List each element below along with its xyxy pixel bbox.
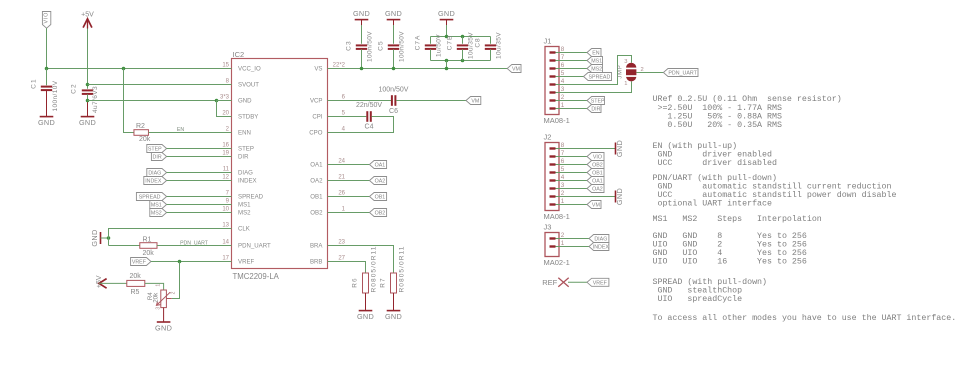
svg-text:VM: VM xyxy=(592,203,600,209)
flag VM on VS xyxy=(507,65,521,73)
ground at R6 xyxy=(359,310,373,312)
svg-text:INDEX: INDEX xyxy=(145,179,162,185)
junction bottom bus VS tap xyxy=(445,59,449,63)
svg-text:REF: REF xyxy=(542,278,557,287)
wire INDEX xyxy=(167,180,232,182)
wire VREF to trimmer tap xyxy=(172,262,180,299)
pin 3 of J1 xyxy=(550,91,556,93)
wire DIAG xyxy=(167,172,232,174)
wire MS1 xyxy=(167,204,232,206)
svg-text:GND: GND xyxy=(385,9,402,18)
wire J2.2 to GND xyxy=(567,196,616,198)
resistor R2 20k xyxy=(134,130,149,136)
svg-text:R1: R1 xyxy=(143,237,152,244)
svg-text:VREF: VREF xyxy=(238,259,255,266)
svg-text:R7: R7 xyxy=(380,277,387,288)
svg-text:To access all other modes you: To access all other modes you have to us… xyxy=(653,313,957,323)
svg-text:23: 23 xyxy=(338,240,345,246)
resistor R1 20k xyxy=(140,243,157,249)
svg-text:20k: 20k xyxy=(143,250,155,257)
svg-text:C8: C8 xyxy=(475,37,482,47)
wire R2 to ENN pin 2 xyxy=(149,132,232,134)
pin 21 OA2 (right) xyxy=(328,180,344,182)
svg-text:C1: C1 xyxy=(31,78,38,89)
ground above C7 group xyxy=(440,19,454,21)
svg-text:2: 2 xyxy=(171,291,177,294)
svg-text:PDN/UART (with pull-down): PDN/UART (with pull-down) xyxy=(653,173,777,183)
pin 8 SVOUT (left) xyxy=(216,84,232,86)
svg-text:MS2: MS2 xyxy=(238,210,251,217)
svg-text:OB2: OB2 xyxy=(310,210,323,217)
svg-text:UIO spreadCycle: UIO spreadCycle xyxy=(653,294,743,304)
svg-text:GND: GND xyxy=(79,118,96,127)
flag DIR xyxy=(151,153,166,161)
flag OA2 xyxy=(370,177,387,185)
svg-text:OA1: OA1 xyxy=(310,162,323,169)
flag INDEX xyxy=(144,177,167,185)
svg-text:MS2: MS2 xyxy=(151,211,162,217)
svg-text:CPI: CPI xyxy=(312,114,322,121)
svg-text:12: 12 xyxy=(222,175,229,181)
pin 6 of J1 xyxy=(550,67,556,69)
svg-text:MS1: MS1 xyxy=(238,202,251,209)
pin 6 VCP (right) xyxy=(328,100,344,102)
svg-text:13: 13 xyxy=(222,223,229,229)
svg-text:C7A: C7A xyxy=(415,35,422,51)
svg-text:OB1: OB1 xyxy=(310,194,323,201)
capacitor C1 100n/10V xyxy=(46,69,48,86)
svg-text:3: 3 xyxy=(155,307,161,310)
svg-text:DIR: DIR xyxy=(591,107,600,113)
pin 24 OA1 (right) xyxy=(328,164,344,166)
junction top bus C7B xyxy=(461,35,465,39)
svg-text:4: 4 xyxy=(561,78,565,85)
svg-text:GND stealthChop: GND stealthChop xyxy=(653,285,743,295)
flag VREF at REF xyxy=(587,278,609,286)
wire bottom bus to VS xyxy=(446,61,448,69)
net VCC_IO wire (pin 15) xyxy=(47,68,232,70)
op-amp / driver IC2 TMC2209-LA body xyxy=(232,59,328,269)
wire BRA pin 23 to R7 xyxy=(343,246,394,274)
connector J3 MA02-1 body xyxy=(545,233,559,257)
ground at C1 xyxy=(40,116,54,118)
svg-text:22n/50V: 22n/50V xyxy=(356,102,382,109)
wire +5V down to SVOUT net xyxy=(87,29,89,85)
svg-text:VS: VS xyxy=(314,66,322,73)
svg-text:0.50U 20% - 0.35A RMS: 0.50U 20% - 0.35A RMS xyxy=(653,121,782,130)
pin 7 of J1 xyxy=(550,59,556,61)
junction top bus GND tap xyxy=(445,35,449,39)
wire trimmer to GND xyxy=(163,308,165,322)
flag EN at J1.8 xyxy=(567,52,587,54)
junction bottom bus C7B xyxy=(461,59,465,63)
ground at C2 xyxy=(81,116,95,118)
svg-text:SPREAD (with pull-down): SPREAD (with pull-down) xyxy=(653,277,768,287)
flag STEP xyxy=(147,145,167,153)
svg-text:VREF: VREF xyxy=(593,280,608,286)
flag MS1 at J1.7 xyxy=(567,60,587,62)
svg-text:STEP: STEP xyxy=(238,146,254,153)
svg-text:C3: C3 xyxy=(346,40,353,51)
svg-text:14: 14 xyxy=(222,240,229,246)
wire CLK pin 13 xyxy=(109,229,232,246)
svg-text:GND: GND xyxy=(155,323,172,332)
svg-text:MA02-1: MA02-1 xyxy=(544,258,570,267)
svg-text:UCC driver disabled: UCC driver disabled xyxy=(653,158,777,168)
wire STEP xyxy=(167,148,232,150)
pin 16 STEP (left) xyxy=(216,148,232,150)
capacitor C4 22n/50V xyxy=(366,111,368,122)
svg-text:PDN_UART: PDN_UART xyxy=(668,71,697,77)
flag MS1 xyxy=(150,201,167,209)
svg-text:VM: VM xyxy=(471,99,479,105)
wire OA1 xyxy=(343,164,370,166)
svg-text:JMP: JMP xyxy=(618,64,624,78)
svg-text:OA1: OA1 xyxy=(375,163,386,169)
svg-text:J1: J1 xyxy=(544,37,552,46)
pin 3*3 GND (left) xyxy=(216,100,232,102)
svg-text:1: 1 xyxy=(561,240,565,247)
C7 group bottom bus xyxy=(431,60,491,62)
svg-text:R6: R6 xyxy=(352,277,359,288)
svg-text:4: 4 xyxy=(561,174,565,181)
pin 19 DIR (left) xyxy=(216,156,232,158)
svg-text:2: 2 xyxy=(561,190,565,197)
flag VM on VCP xyxy=(466,97,481,105)
wire C4 to CPO pin 4 xyxy=(343,117,394,133)
svg-text:GND: GND xyxy=(238,98,252,105)
svg-text:MS1: MS1 xyxy=(591,59,602,65)
svg-text:1u/50V: 1u/50V xyxy=(436,34,443,57)
wire OA2 xyxy=(343,180,370,182)
wire VCP pin 6 xyxy=(343,100,391,102)
flag DIAG at J3.2 xyxy=(567,238,589,240)
flag VREF xyxy=(131,258,151,266)
svg-text:1: 1 xyxy=(561,102,565,109)
pin 8 of J1 xyxy=(550,51,556,53)
svg-text:GND: GND xyxy=(353,9,370,18)
svg-text:C2: C2 xyxy=(71,83,78,94)
svg-text:22*2: 22*2 xyxy=(333,63,346,69)
svg-text:1: 1 xyxy=(561,198,565,205)
svg-text:7: 7 xyxy=(561,150,565,157)
wire SPREAD xyxy=(167,196,232,198)
pin 23 BRA (right) xyxy=(328,245,344,247)
svg-text:ENN: ENN xyxy=(238,130,251,137)
pin 11 DIAG (left) xyxy=(216,172,232,174)
svg-text:27: 27 xyxy=(338,256,345,262)
flag OB1 at J2.5 xyxy=(567,172,587,174)
svg-text:20k: 20k xyxy=(139,136,151,143)
ground above C3 xyxy=(355,19,369,21)
svg-text:20: 20 xyxy=(222,111,229,117)
wire BRB pin 27 to R6 xyxy=(343,262,366,274)
pin 1 of J1 xyxy=(550,107,556,109)
pin 4 CPO (right) xyxy=(328,132,344,134)
wire VCC_IO to R2 xyxy=(124,69,135,133)
pin 7 of J2 xyxy=(550,155,556,157)
svg-text:C7B: C7B xyxy=(447,35,454,51)
svg-text:OA2: OA2 xyxy=(375,179,386,185)
svg-text:2: 2 xyxy=(561,232,565,239)
svg-text:VIO: VIO xyxy=(43,12,49,24)
svg-text:DIAG: DIAG xyxy=(148,171,161,177)
pin 1 of J2 xyxy=(550,203,556,205)
svg-text:GND driver enabled: GND driver enabled xyxy=(653,150,773,160)
svg-text:VIO: VIO xyxy=(593,155,602,161)
resistor R6 R0805/0R11 xyxy=(363,273,369,293)
svg-text:8: 8 xyxy=(561,46,565,53)
flag OA2 at J2.3 xyxy=(567,188,587,190)
pin 5 of J1 xyxy=(550,75,556,77)
flag OA1 at J2.4 xyxy=(567,180,587,182)
pin 17 VREF (left) xyxy=(216,261,232,263)
pin 12 INDEX (left) xyxy=(216,180,232,182)
svg-text:6: 6 xyxy=(561,62,565,69)
pin 13 CLK (left) xyxy=(216,228,232,230)
capacitor C8 10u/35V xyxy=(490,37,492,44)
svg-text:GND: GND xyxy=(615,140,624,157)
svg-text:DIAG: DIAG xyxy=(594,237,607,243)
flag OB2 at J2.6 xyxy=(567,164,587,166)
svg-text:5: 5 xyxy=(561,166,565,173)
flag STEP at J1.2 xyxy=(567,100,587,102)
junction VS tap xyxy=(445,67,449,71)
svg-text:C4: C4 xyxy=(365,124,374,131)
pin 6 of J2 xyxy=(550,163,556,165)
svg-text:R0805/0R11: R0805/0R11 xyxy=(371,245,378,292)
ground at CLK xyxy=(100,232,102,244)
pin 2 of J3 xyxy=(550,237,556,239)
svg-text:10u/35V: 10u/35V xyxy=(496,32,503,59)
svg-text:5: 5 xyxy=(561,70,565,77)
svg-text:SVOUT: SVOUT xyxy=(238,82,259,89)
junction C5/VS xyxy=(392,67,396,71)
wire R6 to GND xyxy=(365,293,367,310)
svg-text:GND: GND xyxy=(357,312,374,321)
pin 1 of J3 xyxy=(550,245,556,247)
flag VM at J2.1 xyxy=(567,204,587,206)
flag MS2 at J1.6 xyxy=(567,68,587,70)
svg-text:optional UART interface: optional UART interface xyxy=(653,199,773,209)
svg-text:2: 2 xyxy=(641,67,644,73)
wire J2.8 to GND xyxy=(567,148,616,150)
svg-text:J2: J2 xyxy=(544,133,552,142)
svg-text:MA08-1: MA08-1 xyxy=(544,116,570,125)
trimmer R4 20k xyxy=(161,290,167,308)
svg-text:R5: R5 xyxy=(131,289,140,296)
svg-text:CLK: CLK xyxy=(238,226,250,233)
svg-text:TMC2209-LA: TMC2209-LA xyxy=(233,272,280,281)
svg-text:3: 3 xyxy=(624,59,627,65)
junction R2 branch xyxy=(122,67,126,71)
svg-text:C6: C6 xyxy=(389,108,398,115)
svg-text:GND: GND xyxy=(438,9,455,18)
svg-text:GND: GND xyxy=(385,312,402,321)
svg-text:OB1: OB1 xyxy=(592,171,603,177)
svg-text:19: 19 xyxy=(222,151,229,157)
svg-text:GND: GND xyxy=(38,118,55,127)
svg-text:OB1: OB1 xyxy=(375,195,386,201)
svg-text:IC2: IC2 xyxy=(233,50,245,59)
svg-text:SPREAD: SPREAD xyxy=(589,75,611,81)
pin 4 of J2 xyxy=(550,179,556,181)
svg-text:6: 6 xyxy=(561,158,565,165)
svg-text:24: 24 xyxy=(338,159,345,165)
svg-text:PDN_UART: PDN_UART xyxy=(238,243,271,250)
svg-text:8: 8 xyxy=(561,142,565,149)
svg-text:10u/35V: 10u/35V xyxy=(468,32,475,59)
flag OB1 xyxy=(370,193,387,201)
svg-text:20k: 20k xyxy=(130,273,142,280)
pin 9 MS1 (left) xyxy=(216,204,232,206)
svg-text:3*3: 3*3 xyxy=(220,95,230,101)
svg-text:STEP: STEP xyxy=(148,147,162,153)
wire C6 to VM flag xyxy=(396,100,466,102)
svg-text:VM: VM xyxy=(512,67,520,73)
wire +5V to R5 xyxy=(99,282,127,284)
wire R1 to PDN_UART pin 14 xyxy=(157,245,232,247)
pin 22*2 VS (right) xyxy=(328,68,344,70)
pin 4 of J1 xyxy=(550,83,556,85)
svg-text:C5: C5 xyxy=(378,40,385,51)
pin 2 ENN (left) xyxy=(216,132,232,134)
svg-text:17: 17 xyxy=(222,256,229,262)
wire OB2 xyxy=(343,212,370,214)
flag INDEX at J3.1 xyxy=(567,246,589,248)
pin 2 of J1 xyxy=(550,99,556,101)
supply flag VIO xyxy=(42,12,50,29)
wire VREF pin 17 xyxy=(151,261,232,263)
svg-text:100n/50V: 100n/50V xyxy=(399,31,406,62)
svg-text:BRB: BRB xyxy=(310,259,323,266)
net GND wire (pin 3*3) xyxy=(88,100,232,102)
pin 26 OB1 (right) xyxy=(328,196,344,198)
svg-text:GND automatic standstill: GND automatic standstill current reducti… xyxy=(653,182,892,192)
svg-text:21: 21 xyxy=(338,175,345,181)
svg-text:EN: EN xyxy=(592,51,600,57)
connector J1 MA08-1 body xyxy=(545,47,559,115)
junction C2 top xyxy=(86,83,90,87)
net VS wire (pin 22*2) xyxy=(343,68,507,70)
pin 14 PDN_UART (left) xyxy=(216,245,232,247)
C7 group top bus xyxy=(431,36,491,38)
flag VIO at J2.7 xyxy=(567,156,587,158)
svg-text:MS2: MS2 xyxy=(591,67,602,73)
junction C2 bottom xyxy=(86,99,90,103)
connector J2 MA08-1 body xyxy=(545,143,559,211)
flag SPREAD xyxy=(136,193,166,201)
svg-text:R2: R2 xyxy=(136,123,145,130)
svg-text:OB2: OB2 xyxy=(592,163,603,169)
flag MS2 xyxy=(150,209,167,217)
svg-text:MA08-1: MA08-1 xyxy=(544,212,570,221)
svg-text:R0805/0R11: R0805/0R11 xyxy=(399,245,406,292)
junction VIO/C1 xyxy=(45,67,49,71)
ground at J2.2 xyxy=(615,191,617,203)
flag OA1 xyxy=(370,161,387,169)
svg-text:DIR: DIR xyxy=(153,155,162,161)
svg-text:4u7/6V3: 4u7/6V3 xyxy=(92,86,99,113)
capacitor C2 4u7/6V3 xyxy=(87,85,89,89)
pin 8 of J2 xyxy=(550,147,556,149)
wire GND to R1 xyxy=(109,245,140,247)
wire VIO down to VCC_IO net xyxy=(46,28,48,68)
svg-text:MS1: MS1 xyxy=(151,203,162,209)
ground at R7 xyxy=(387,310,401,312)
svg-text:URef 0…2.5U (0.11 Ohm sense r: URef 0…2.5U (0.11 Ohm sense resistor) xyxy=(653,94,842,104)
ground above C5 xyxy=(387,19,401,21)
svg-text:2: 2 xyxy=(561,94,565,101)
pin 5 CPI (right) xyxy=(328,116,344,118)
pin 27 BRB (right) xyxy=(328,261,344,263)
pin 10 MS2 (left) xyxy=(216,212,232,214)
svg-text:3: 3 xyxy=(561,86,565,93)
svg-text:UCC automatic standstill: UCC automatic standstill power down disa… xyxy=(653,190,897,200)
svg-text:VCP: VCP xyxy=(310,98,323,105)
svg-text:1: 1 xyxy=(156,284,162,287)
svg-text:GND: GND xyxy=(615,188,624,205)
capacitor C7A 1u/50V xyxy=(430,37,432,44)
svg-text:INDEX: INDEX xyxy=(238,178,257,185)
capacitor C3 100n/50V xyxy=(361,20,363,25)
svg-text:20k: 20k xyxy=(153,292,160,303)
wire OB1 xyxy=(343,196,370,198)
wire DIR xyxy=(167,156,232,158)
svg-text:DIAG: DIAG xyxy=(238,170,253,177)
pin 15 VCC_IO (left) xyxy=(216,68,232,70)
flag PDN_UART xyxy=(663,69,698,77)
solder jumper JMP xyxy=(626,63,636,82)
svg-text:3: 3 xyxy=(561,182,565,189)
svg-text:VCC_IO: VCC_IO xyxy=(238,66,261,73)
flag SPREAD at J1.5 xyxy=(567,76,584,78)
svg-text:OB2: OB2 xyxy=(375,211,386,217)
svg-text:J3: J3 xyxy=(544,223,552,232)
resistor R7 R0805/0R11 xyxy=(391,273,397,293)
svg-text:SPREAD: SPREAD xyxy=(139,195,161,201)
ground at R4 xyxy=(157,321,171,323)
wire MS2 xyxy=(167,212,232,214)
svg-text:16: 16 xyxy=(222,143,229,149)
svg-text:PDN_UART: PDN_UART xyxy=(180,241,209,247)
svg-text:EN: EN xyxy=(177,127,184,133)
pin 20 STDBY (left) xyxy=(216,116,232,118)
svg-text:OA2: OA2 xyxy=(310,178,323,185)
wire J1.4 to jumper pin 3 xyxy=(567,56,632,85)
junction GND/STDBY xyxy=(215,99,219,103)
ground at J2.8 xyxy=(615,143,617,155)
svg-text:VREF: VREF xyxy=(132,260,147,266)
svg-text:CPO: CPO xyxy=(309,130,322,137)
wire J1.3 to jumper pin 1 xyxy=(567,81,632,92)
svg-text:STEP: STEP xyxy=(591,99,605,105)
svg-text:BRA: BRA xyxy=(310,243,323,250)
flag DIAG xyxy=(147,169,167,177)
flag DIR at J1.1 xyxy=(567,108,587,110)
pin 7 SPREAD (left) xyxy=(216,196,232,198)
pin 2 of J2 xyxy=(550,195,556,197)
wire CPI pin 5 xyxy=(343,116,366,118)
pin 5 of J2 xyxy=(550,171,556,173)
wire GND to STDBY pin 20 xyxy=(217,101,232,117)
svg-text:7: 7 xyxy=(561,54,565,61)
svg-text:GND: GND xyxy=(90,229,99,246)
svg-text:SPREAD: SPREAD xyxy=(238,194,264,201)
net SVOUT wire (pin 8) xyxy=(88,84,232,86)
wire R7 to GND xyxy=(393,293,395,310)
svg-text:UIO UIO 16 Yes to 25: UIO UIO 16 Yes to 256 xyxy=(653,258,807,267)
